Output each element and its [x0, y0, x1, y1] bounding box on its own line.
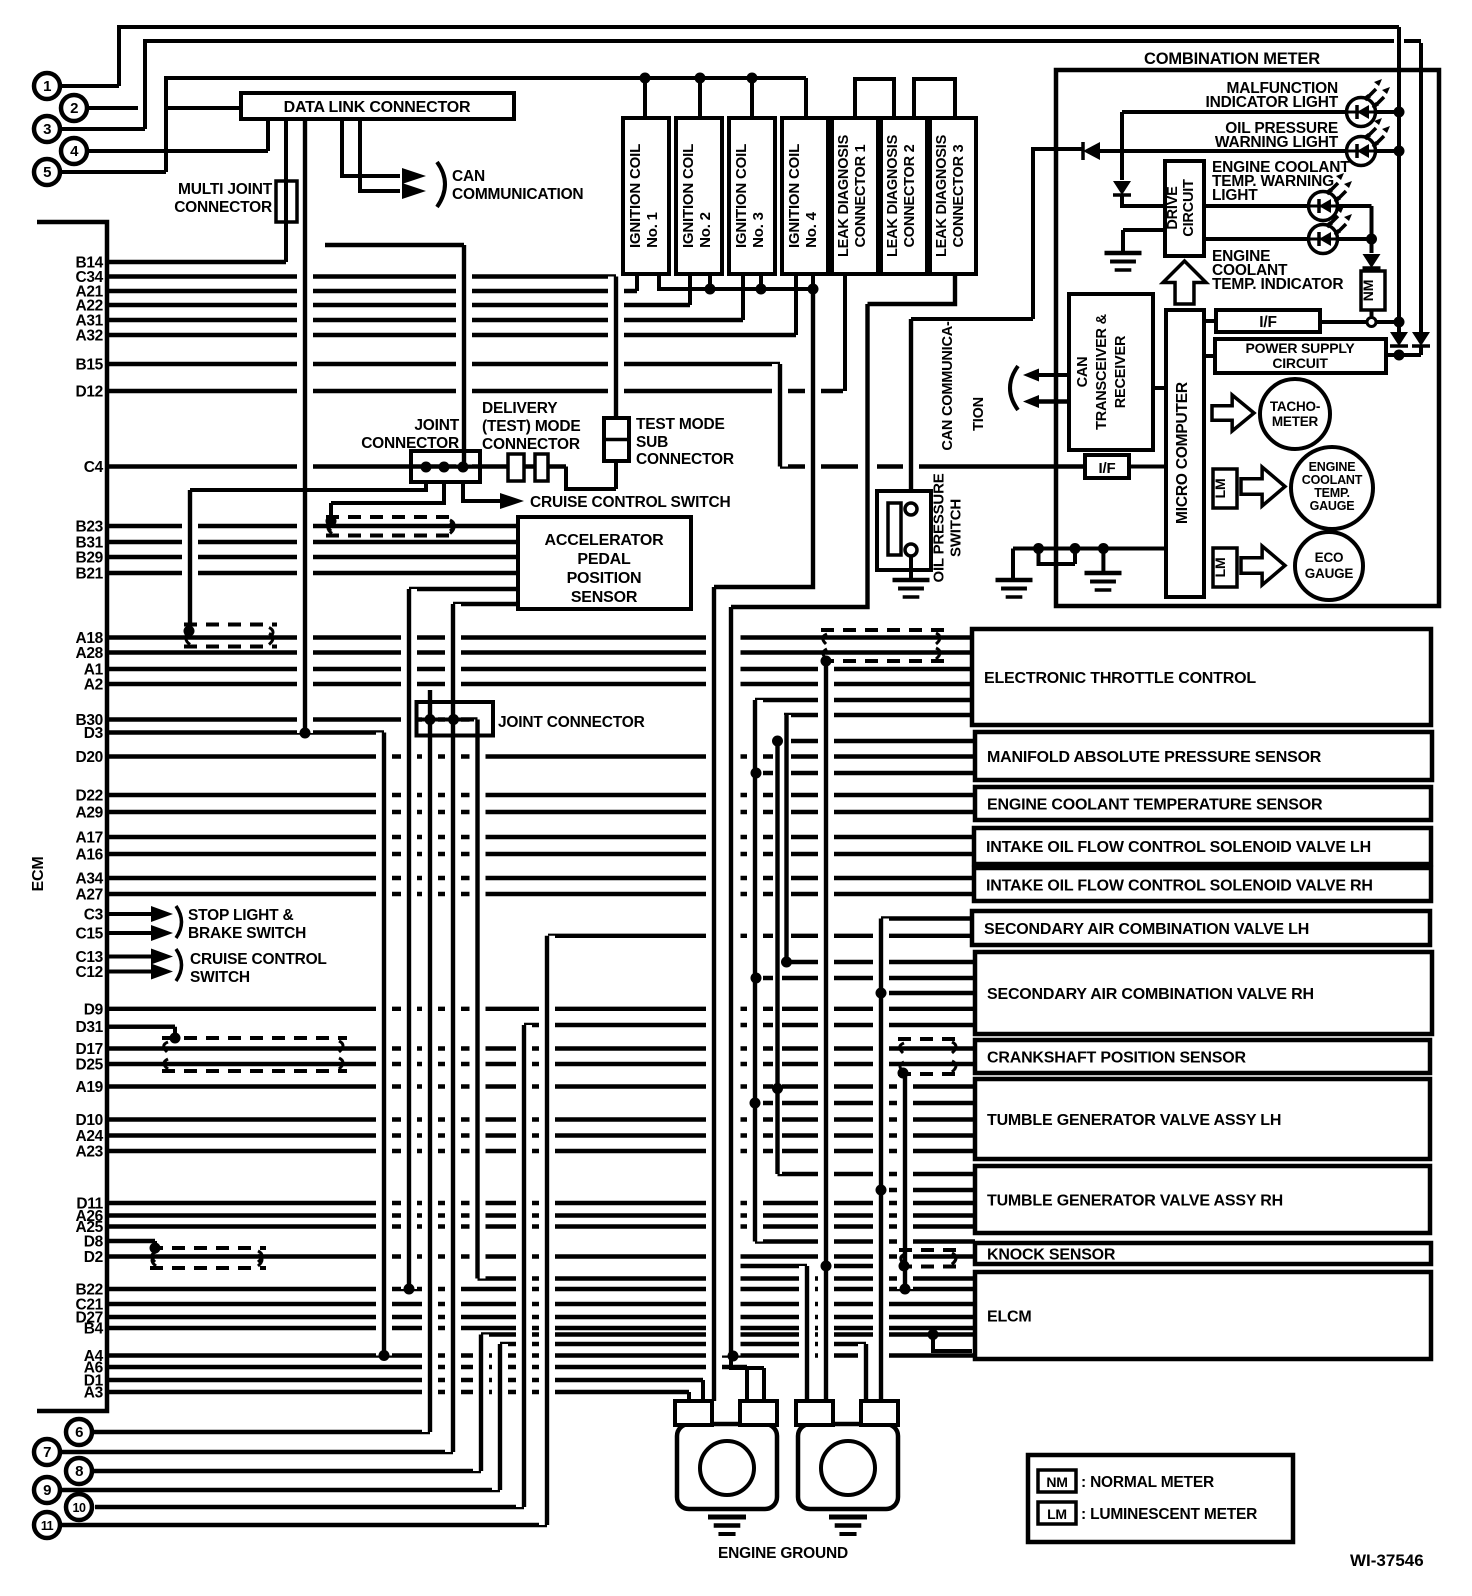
wire 9 — [60, 1488, 500, 1492]
wire D2 — [107, 1254, 975, 1258]
svg-text:10: 10 — [73, 1501, 86, 1515]
wire feed1 into CM — [1397, 27, 1401, 332]
wire gnd jog — [1039, 549, 1076, 565]
svg-text:GAUGE: GAUGE — [1305, 566, 1354, 581]
wire SACV-LH in1 — [881, 916, 973, 920]
svg-text:D9: D9 — [84, 1001, 104, 1018]
wire CAN arrow lower — [1037, 399, 1069, 404]
svg-text:8: 8 — [75, 1463, 83, 1480]
svg-text:CRANKSHAFT POSITION SENSOR: CRANKSHAFT POSITION SENSOR — [987, 1050, 1246, 1067]
svg-text:A28: A28 — [75, 645, 103, 662]
wire A18 — [107, 635, 973, 639]
svg-text:DELIVERY: DELIVERY — [482, 400, 558, 417]
svg-text:LEAK DIAGNOSIS: LEAK DIAGNOSIS — [885, 134, 901, 257]
svg-text:D10: D10 — [75, 1112, 103, 1129]
svg-text:C12: C12 — [75, 964, 103, 981]
wire IF2 to MC — [1129, 465, 1166, 469]
svg-text:(TEST) MODE: (TEST) MODE — [482, 418, 581, 435]
svg-text:D17: D17 — [75, 1041, 103, 1058]
junction dot (881,993) — [876, 988, 887, 999]
junction dot (756,978) — [751, 973, 762, 984]
wire B4 — [107, 1326, 975, 1330]
junction dot (409,1289) — [404, 1284, 415, 1295]
ECM boundary — [37, 222, 107, 1411]
leak diagnosis connector 1 — [832, 118, 878, 274]
wire A3 — [107, 1390, 689, 1394]
wires stop light & brake switch — [107, 912, 153, 916]
wire D20 — [107, 754, 975, 758]
wire A27 — [107, 892, 974, 896]
ignition coil 2 — [676, 118, 722, 274]
bus DLC-D3 — [297, 118, 313, 733]
connector circle 3 — [34, 116, 60, 142]
wire ETC in6 — [784, 713, 973, 717]
svg-text:LM: LM — [1212, 558, 1228, 578]
engine ground connector at 848 — [798, 1424, 898, 1509]
svg-text:6: 6 — [75, 1424, 83, 1441]
wire CANTR to MC — [1153, 386, 1166, 390]
svg-text:C15: C15 — [75, 926, 103, 943]
ignition coil 4 — [782, 118, 828, 274]
svg-text:C4: C4 — [84, 459, 104, 476]
bus LDC3-A4 — [731, 274, 955, 1356]
ignition coil 1 — [623, 118, 669, 274]
wire TGV-LH in2 — [755, 1101, 973, 1105]
wire D17 — [107, 1046, 975, 1050]
connector circle 1 — [34, 73, 60, 99]
svg-text:SUB: SUB — [636, 434, 668, 451]
junction dot (777.5,741) — [772, 736, 783, 747]
svg-text:9: 9 — [43, 1482, 51, 1499]
svg-text:B4: B4 — [84, 1321, 104, 1338]
svg-text:COOLANT: COOLANT — [1302, 473, 1363, 487]
svg-text:ENGINE GROUND: ENGINE GROUND — [718, 1545, 848, 1562]
svg-text:ECO: ECO — [1315, 550, 1344, 565]
wire A23 — [107, 1149, 973, 1153]
wire B22 — [107, 1287, 975, 1291]
svg-text:11: 11 — [41, 1519, 54, 1533]
svg-text:TEMP.: TEMP. — [1314, 486, 1350, 500]
svg-text:TACHO-: TACHO- — [1270, 399, 1320, 414]
svg-text:A16: A16 — [75, 847, 103, 864]
wire 7 — [60, 1450, 453, 1454]
wire MJC to B14 — [284, 119, 288, 262]
svg-text:IGNITION COIL: IGNITION COIL — [680, 144, 697, 248]
wire JC to cruise — [463, 482, 503, 501]
wire MIL — [1122, 110, 1346, 114]
svg-text:STOP LIGHT &: STOP LIGHT & — [188, 907, 294, 924]
diode oil pressure line — [1081, 142, 1085, 160]
junction dot (933,1334.5) — [928, 1329, 939, 1340]
wire A4 — [107, 1353, 975, 1357]
wire B15 — [107, 362, 780, 366]
wire D31 hook — [107, 1027, 175, 1038]
DRIVE CIRCUIT box — [1165, 161, 1204, 256]
wire APPS p2 — [453, 602, 518, 606]
box SECONDARY AIR COMBINATION VALVE LH — [972, 911, 1430, 945]
wire D9 — [107, 1007, 973, 1011]
bus shield drain2 — [897, 1073, 913, 1289]
svg-text:5: 5 — [43, 164, 51, 181]
ECO GAUGE circle — [1295, 532, 1363, 600]
leak diagnosis connector 3 — [930, 118, 976, 274]
wire LDC1 to D12 — [843, 274, 847, 391]
svg-text:1: 1 — [43, 78, 51, 95]
svg-text:A17: A17 — [75, 830, 103, 847]
svg-text:JOINT CONNECTOR: JOINT CONNECTOR — [498, 714, 645, 731]
junction dot (881,1190) — [876, 1185, 887, 1196]
svg-text:I/F: I/F — [1259, 314, 1276, 331]
svg-text:CONNECTOR: CONNECTOR — [636, 451, 734, 468]
LM box 2 — [1213, 548, 1237, 587]
svg-text:JOINT: JOINT — [414, 417, 459, 434]
ground engine — [708, 1515, 746, 1520]
wire D11 — [107, 1201, 975, 1205]
bus B30-ELCM — [470, 720, 486, 1279]
bracket stop light — [176, 906, 182, 938]
svg-text:A2: A2 — [84, 677, 103, 694]
svg-text:CONNECTOR: CONNECTOR — [482, 436, 580, 453]
box SECONDARY AIR COMBINATION VALVE RH — [975, 952, 1432, 1034]
box ELECTRONIC THROTTLE CONTROL — [972, 629, 1431, 725]
svg-text:KNOCK SENSOR: KNOCK SENSOR — [987, 1247, 1116, 1264]
ground drive circuit — [1105, 251, 1142, 256]
arrowheads CAN communication — [402, 168, 426, 184]
shield D17/D25 — [162, 1036, 347, 1040]
wire circle4 to DLC — [87, 119, 268, 151]
LED engine coolant temp warning light — [1309, 192, 1338, 221]
wire D12 — [107, 389, 843, 393]
shield B23 — [326, 515, 458, 519]
OIL PRESSURE SWITCH connector — [877, 491, 931, 570]
box MANIFOLD ABSOLUTE PRESSURE SENSOR — [975, 732, 1432, 780]
svg-text:ECM: ECM — [30, 857, 47, 892]
bus jog-9 — [492, 1344, 508, 1490]
wire A21 — [107, 289, 637, 293]
wire D25 — [107, 1062, 975, 1066]
svg-text:C3: C3 — [84, 907, 104, 924]
svg-text:B23: B23 — [75, 519, 103, 536]
wire B30 — [107, 717, 478, 721]
svg-text:A23: A23 — [75, 1144, 103, 1161]
engine ground connector at 727 — [677, 1424, 777, 1509]
svg-text:D2: D2 — [84, 1249, 103, 1266]
DATA LINK CONNECTOR box — [241, 93, 514, 119]
wire circle5 coil feeder — [60, 78, 806, 172]
ground CM2 — [1085, 571, 1122, 576]
junction dot (786.5,962) — [781, 957, 792, 968]
svg-text:CAN: CAN — [452, 168, 485, 185]
wire D3 — [107, 730, 384, 734]
junction dot (777.5,1088.5) — [772, 1083, 783, 1094]
box INTAKE OIL FLOW CONTROL SOLENOID VALVE LH — [974, 828, 1431, 864]
POWER SUPPLY CIRCUIT box — [1215, 339, 1386, 373]
junction dot (755,1103) — [750, 1098, 761, 1109]
svg-text:POWER SUPPLY: POWER SUPPLY — [1245, 340, 1355, 356]
junction dot (305,733) — [300, 728, 311, 739]
diode feed2 — [1412, 332, 1430, 346]
wire gnd jog2 — [500, 1342, 866, 1346]
svg-text:MANIFOLD ABSOLUTE PRESSURE SEN: MANIFOLD ABSOLUTE PRESSURE SENSOR — [987, 749, 1322, 766]
svg-text:No. 3: No. 3 — [750, 212, 767, 248]
box CRANKSHAFT POSITION SENSOR — [975, 1040, 1430, 1073]
wire A2 — [107, 682, 973, 686]
svg-text:ELECTRONIC THROTTLE CONTROL: ELECTRONIC THROTTLE CONTROL — [984, 670, 1256, 687]
svg-text:PEDAL: PEDAL — [577, 551, 631, 568]
svg-text:LEAK DIAGNOSIS: LEAK DIAGNOSIS — [836, 134, 852, 257]
bus ETC-SACV — [782, 715, 791, 962]
CAN bracket — [437, 162, 445, 207]
diode NM branch — [1363, 254, 1381, 268]
connector circle 11 — [34, 1512, 60, 1538]
ignition coil 3 — [729, 118, 775, 274]
svg-text:GAUGE: GAUGE — [1310, 499, 1355, 513]
box ENGINE COOLANT TEMPERATURE SENSOR — [975, 787, 1431, 820]
connector open circle — [1367, 318, 1376, 327]
multi joint connector symbol — [276, 181, 297, 222]
svg-text:WARNING LIGHT: WARNING LIGHT — [1215, 134, 1339, 151]
wire A26 — [107, 1213, 975, 1217]
connector circle 10 — [66, 1494, 92, 1520]
CAN TRANSCEIVER & RECEIVER box — [1069, 294, 1153, 450]
wire ELCM B30 — [478, 1276, 976, 1280]
wire A19 — [107, 1084, 973, 1088]
svg-text:SECONDARY AIR COMBINATION VALV: SECONDARY AIR COMBINATION VALVE LH — [984, 921, 1309, 938]
svg-text:4: 4 — [70, 143, 79, 160]
wire SACV-RH in2 — [756, 976, 973, 980]
svg-text:No. 4: No. 4 — [803, 211, 820, 248]
svg-text:TION: TION — [971, 397, 987, 431]
wire A34 — [107, 876, 974, 880]
bus MAP-gnd — [773, 741, 782, 1174]
wire TGV-RH in2 — [881, 1188, 975, 1192]
svg-text:A32: A32 — [75, 328, 103, 345]
box KNOCK SENSOR — [975, 1243, 1431, 1264]
svg-text:SENSOR: SENSOR — [571, 589, 638, 606]
LM box 1 — [1213, 469, 1237, 508]
ground CM1 — [996, 578, 1033, 583]
svg-text:COMMUNICATION: COMMUNICATION — [452, 186, 583, 203]
bus JC-6 — [422, 690, 438, 1432]
wire JC to A18 bus — [190, 482, 426, 490]
svg-text:A29: A29 — [75, 805, 103, 822]
wire A28 — [107, 650, 973, 654]
TACHOMETER circle — [1260, 379, 1330, 449]
svg-text:WI-37546: WI-37546 — [1350, 1551, 1424, 1570]
junction dot (826,1266) — [821, 1261, 832, 1272]
svg-text:NM: NM — [1046, 1474, 1067, 1490]
block arrow ECT gauge — [1241, 467, 1285, 506]
wire ETC in5 — [755, 698, 973, 702]
shield A18 — [184, 623, 277, 627]
box TUMBLE GENERATOR VALVE ASSY RH — [975, 1166, 1430, 1233]
wire drive circuit ground — [1123, 230, 1165, 252]
svg-text:CRUISE CONTROL: CRUISE CONTROL — [190, 951, 327, 968]
wire D8 — [107, 1239, 155, 1243]
svg-text:CONNECTOR 3: CONNECTOR 3 — [951, 144, 967, 247]
svg-text:B15: B15 — [75, 357, 103, 374]
svg-text:A27: A27 — [75, 887, 103, 904]
wire D22 — [107, 793, 975, 797]
wire 6 — [92, 1430, 430, 1434]
LED malfunction indicator light — [1347, 98, 1376, 127]
junction dot (756,773) — [751, 768, 762, 779]
svg-text:TEST MODE: TEST MODE — [636, 416, 725, 433]
wire CAN arrow upper — [1037, 373, 1069, 377]
svg-text:POSITION: POSITION — [567, 570, 642, 587]
diode MIL branch — [1113, 181, 1131, 195]
connector circle 4 — [61, 138, 87, 164]
svg-text:3: 3 — [43, 121, 51, 138]
wire circle2 to DLC — [87, 106, 241, 110]
LM legend box — [1038, 1502, 1076, 1524]
wire IF1 to circle — [1320, 320, 1367, 324]
connector circle 6 — [66, 1419, 92, 1445]
svg-text:CIRCUIT: CIRCUIT — [1181, 179, 1197, 237]
connector circle 2 — [61, 95, 87, 121]
I/F box lower — [1085, 455, 1129, 478]
svg-text:D3: D3 — [84, 725, 104, 742]
CAN bracket CM — [1010, 366, 1018, 410]
shield D2 — [150, 1246, 266, 1250]
svg-text:INTAKE OIL FLOW CONTROL SOLENO: INTAKE OIL FLOW CONTROL SOLENOID VALVE R… — [986, 878, 1373, 895]
wire OPS ground — [909, 556, 913, 579]
ACCELERATOR PEDAL POSITION SENSOR box — [518, 517, 691, 609]
wire to feed1 — [1376, 320, 1399, 324]
svg-text:CIRCUIT: CIRCUIT — [1272, 355, 1328, 371]
wire conn8 jog to ELCM — [933, 1335, 972, 1352]
svg-text:CONNECTOR 1: CONNECTOR 1 — [853, 144, 869, 247]
wire MC to PSC — [1204, 354, 1215, 358]
box INTAKE OIL FLOW CONTROL SOLENOID VALVE RH — [974, 868, 1431, 901]
wire D27 — [107, 1315, 975, 1319]
wire B21 — [107, 571, 518, 575]
wire C21 — [107, 1302, 975, 1306]
wire C4 to TMS — [566, 461, 616, 489]
LED engine coolant temp indicator — [1309, 225, 1338, 254]
junction dot (384,1355.5) — [379, 1350, 390, 1361]
joint connector box C4 — [411, 451, 480, 482]
bus gnd tab2a — [799, 1266, 815, 1401]
svg-text:INTAKE OIL FLOW CONTROL SOLENO: INTAKE OIL FLOW CONTROL SOLENOID VALVE L… — [986, 839, 1371, 856]
wire JC to B23 — [331, 482, 444, 521]
wire coil left pins — [637, 275, 796, 335]
svg-text:D22: D22 — [75, 788, 103, 805]
svg-text:MICRO COMPUTER: MICRO COMPUTER — [1174, 382, 1191, 524]
svg-text:: LUMINESCENT METER: : LUMINESCENT METER — [1081, 1506, 1257, 1523]
wire A6 to ground tab — [745, 1367, 749, 1401]
svg-text:TUMBLE GENERATOR VALVE ASSY RH: TUMBLE GENERATOR VALVE ASSY RH — [987, 1193, 1283, 1210]
wire PSC to feeds — [1386, 353, 1421, 357]
wire feed2 into CM — [1419, 43, 1423, 332]
svg-text:LM: LM — [1212, 479, 1228, 499]
wire TGV-RH in1 — [778, 1172, 976, 1176]
bus jog-8 — [473, 1335, 489, 1472]
wire A32 — [107, 333, 796, 337]
shield KNOCK — [899, 1248, 960, 1252]
wire MC to IF1 — [1204, 319, 1216, 323]
wire A24 — [107, 1133, 973, 1137]
diode feed1 — [1390, 332, 1408, 346]
bus D3-A4 — [376, 733, 392, 1356]
svg-text:TRANSCEIVER &: TRANSCEIVER & — [1094, 313, 1110, 430]
block arrow ECT indicator — [1163, 261, 1206, 304]
svg-text:A19: A19 — [75, 1079, 103, 1096]
COMBINATION METER box — [1056, 70, 1439, 606]
ground engine — [829, 1515, 867, 1520]
svg-text:B21: B21 — [75, 566, 103, 583]
LED oil pressure warning light — [1347, 137, 1376, 166]
wire B29 — [107, 555, 518, 559]
wire circle3 line2 — [60, 41, 1421, 129]
svg-text:ENGINE COOLANT TEMPERATURE SEN: ENGINE COOLANT TEMPERATURE SENSOR — [987, 797, 1323, 814]
svg-text:LM: LM — [1047, 1506, 1067, 1522]
svg-text:MULTI JOINT: MULTI JOINT — [178, 181, 273, 198]
leak diagnosis connector 2 — [881, 118, 927, 274]
svg-text:RECEIVER: RECEIVER — [1113, 335, 1129, 408]
connector circle 9 — [34, 1477, 60, 1503]
wire B14 — [107, 260, 286, 264]
wire ECT indicator — [1204, 237, 1308, 241]
wire MAP in3 — [756, 771, 975, 775]
block arrow tachometer — [1212, 395, 1254, 431]
wire NM to IF — [1370, 310, 1374, 317]
wire 8 — [92, 1469, 481, 1473]
delivery connector symbol 2 — [535, 454, 548, 481]
wire MIL to drive circuit — [1120, 112, 1124, 180]
svg-text:ELCM: ELCM — [987, 1309, 1032, 1326]
wire IF2 feed — [780, 464, 1085, 468]
bus SACV-gnd — [873, 919, 889, 1402]
bracket cruise — [176, 949, 182, 981]
bus DLC-C4 — [325, 245, 464, 467]
wire SACV-RH in4 — [524, 1023, 975, 1027]
wire A25 — [107, 1224, 975, 1228]
svg-text:A34: A34 — [75, 871, 103, 888]
wire SACV-LH in2 — [548, 934, 973, 938]
wire ECT warning — [1204, 204, 1308, 208]
bus SACVLH-11 — [539, 936, 555, 1525]
svg-text:I/F: I/F — [1099, 460, 1116, 477]
bus OPS up — [903, 319, 919, 503]
wires cruise control switch — [107, 955, 153, 959]
wire SACV-RH in3 — [881, 991, 973, 995]
wire LDC staple1 — [855, 79, 894, 118]
svg-text:IGNITION COIL: IGNITION COIL — [733, 144, 750, 248]
I/F box upper — [1216, 310, 1320, 332]
svg-text:CONNECTOR: CONNECTOR — [174, 199, 272, 216]
wire MAP in1 — [778, 739, 976, 743]
wire circle1 top line — [60, 27, 1399, 86]
svg-text:BRAKE SWITCH: BRAKE SWITCH — [188, 925, 306, 942]
svg-text:2: 2 — [70, 100, 78, 117]
wire A16 — [107, 852, 974, 856]
bus JC-A18 — [182, 490, 198, 633]
wire A31 — [107, 318, 743, 322]
wire A29 — [107, 810, 975, 814]
wire to NM — [1370, 239, 1374, 253]
wire B30 through JC — [418, 718, 474, 722]
wire A1 — [107, 667, 973, 671]
svg-text:A3: A3 — [84, 1385, 104, 1402]
svg-text:ENGINE: ENGINE — [1309, 460, 1356, 474]
svg-text:OIL PRESSURE: OIL PRESSURE — [931, 473, 948, 582]
bus TGVLH feed — [747, 700, 763, 1242]
shield CKP — [898, 1037, 960, 1041]
junction dot (733,1356) — [728, 1351, 739, 1362]
svg-text:No. 2: No. 2 — [697, 212, 714, 248]
ENGINE COOLANT TEMP GAUGE circle — [1291, 447, 1373, 529]
